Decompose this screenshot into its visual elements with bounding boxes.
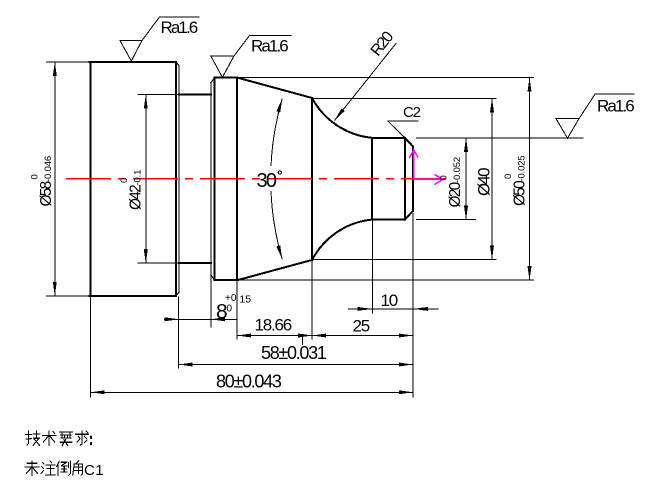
svg-text:18.66: 18.66 xyxy=(255,316,292,335)
wire R20 fillet top xyxy=(312,98,372,138)
svg-text:-0.1: -0.1 xyxy=(133,170,144,186)
colon xyxy=(90,437,92,445)
arrow 30deg top xyxy=(276,99,282,113)
arrow 10 right outside xyxy=(413,307,428,311)
svg-text:Ø42: Ø42 xyxy=(128,185,145,210)
arrow 80 right xyxy=(399,390,413,394)
arrow Ø58 top xyxy=(53,62,57,76)
svg-text:Ra1.6: Ra1.6 xyxy=(161,18,198,37)
dim Ø50 line xyxy=(529,78,531,281)
char 角 xyxy=(73,461,83,475)
arrow 10 left outside xyxy=(357,307,372,311)
wire C2 chamfer bottom xyxy=(405,211,413,220)
workpiece origin marker (magenta) xyxy=(409,150,443,185)
wire groove top edge Ø42 xyxy=(179,94,211,96)
arrow 25 right xyxy=(399,334,413,338)
wire Ø50 chamfer edge line xyxy=(214,78,216,281)
arrow Ø42 bottom xyxy=(144,249,148,263)
wire R20 fillet bottom xyxy=(312,220,372,260)
svg-text:Ø58: Ø58 xyxy=(38,181,55,206)
char 术 xyxy=(43,431,57,446)
arc lower segment xyxy=(271,191,282,259)
wire Ø20 bottom edge xyxy=(372,219,405,221)
wire Ø50 left chamfer bottom xyxy=(211,275,215,280)
dim Ø58 line xyxy=(54,62,56,296)
arrow Ø20 bottom xyxy=(464,206,468,220)
ext line 372.3 vertical xyxy=(371,220,373,314)
leader R20 xyxy=(335,43,397,120)
svg-text:0: 0 xyxy=(503,174,514,179)
dim 10 line xyxy=(348,308,439,310)
svg-text:Ra1.6: Ra1.6 xyxy=(597,97,634,116)
wire magenta horizontal axis xyxy=(414,178,444,180)
dimension arrows (filled) xyxy=(53,62,532,394)
char 注 xyxy=(41,461,55,475)
label R20 xyxy=(368,28,398,59)
magenta up arrowhead xyxy=(409,150,418,158)
svg-text:Ø20: Ø20 xyxy=(447,181,464,207)
arrow dim8 left outside xyxy=(165,317,179,321)
arrow Ø58 bottom xyxy=(53,282,57,296)
dim Ø50 extension top xyxy=(237,77,534,79)
dim Ø42 extension bottom xyxy=(138,262,179,264)
dim 58 line xyxy=(179,364,413,366)
arrow 80 left xyxy=(91,390,105,394)
arrow 18.66 left xyxy=(237,334,251,338)
svg-text:58±0.031: 58±0.031 xyxy=(261,343,327,363)
arrow 25 left xyxy=(312,334,326,338)
dimension lines (thin) xyxy=(46,62,584,398)
dim Ø42 extension top xyxy=(138,94,179,96)
dim Ø20 extension bottom xyxy=(416,219,476,221)
char 求 xyxy=(76,431,89,445)
svg-text:Ø40: Ø40 xyxy=(475,168,494,196)
wire C2 chamfer edge line xyxy=(404,138,406,220)
wire left face Ø58 xyxy=(90,62,92,296)
leader C2 xyxy=(388,121,419,138)
surface finish symbol Ra1.6 (middle) xyxy=(211,36,292,78)
svg-text:Ra1.6: Ra1.6 xyxy=(251,37,288,56)
arrow Ø50 top xyxy=(528,78,532,92)
svg-text:10: 10 xyxy=(381,291,398,310)
svg-text:15: 15 xyxy=(239,293,251,305)
wire cone top generator 30deg xyxy=(237,78,312,98)
svg-text:0: 0 xyxy=(30,174,41,179)
dim Ø58 extension bottom xyxy=(46,295,89,297)
wire Ø50 right edge line xyxy=(236,78,238,281)
char 技 xyxy=(26,431,41,446)
wire cone bottom generator 30deg xyxy=(237,260,312,280)
ext line 178.7 vertical xyxy=(178,297,180,369)
wire Ø50 left chamfer top xyxy=(211,78,215,83)
svg-text:C2: C2 xyxy=(403,104,421,121)
dim text Ø20 rotated xyxy=(439,157,465,208)
wire Ø50 top edge xyxy=(215,77,238,79)
svg-text:0: 0 xyxy=(227,304,233,315)
svg-text:C1: C1 xyxy=(84,462,104,479)
arrow Ø42 top xyxy=(144,95,148,109)
wire Ø58 chamfer edge line xyxy=(175,62,177,296)
dim 18.66 and 25 line xyxy=(237,335,413,337)
arrow Ø50 bottom xyxy=(528,266,532,280)
wire magenta vertical axis xyxy=(413,150,415,179)
wire Ø50 left face xyxy=(210,83,212,275)
surface finish symbol Ra1.6 (left) xyxy=(120,17,200,61)
dim Ø42 line xyxy=(145,95,147,264)
svg-text:-0.025: -0.025 xyxy=(517,155,528,181)
wire Ø20 top edge xyxy=(372,137,405,139)
arrow 58 right xyxy=(399,363,413,367)
arrow Ø20 top xyxy=(464,138,468,152)
dim 80 line xyxy=(91,391,413,393)
dim Ø40 extension top xyxy=(312,97,496,99)
arrow Ø40 top xyxy=(490,98,494,112)
wire Ø58 right chamfer bottom xyxy=(176,292,179,296)
wire Ø58 right face xyxy=(178,66,180,293)
dim Ø50 extension bottom xyxy=(237,279,534,281)
wire cone end edge line xyxy=(311,98,313,260)
char 倒 xyxy=(57,461,71,475)
wire Ø50 bottom edge xyxy=(215,279,238,281)
centerline (red) xyxy=(66,178,447,180)
wire Ø20 junction edge line xyxy=(371,138,373,220)
arrow dim8 right outside xyxy=(211,317,225,321)
part outline xyxy=(90,62,413,296)
ext line right face vertical xyxy=(412,213,414,398)
surface finish symbol Ra1.6 (right) xyxy=(556,94,635,138)
arc upper segment xyxy=(271,99,282,167)
svg-text:-0.046: -0.046 xyxy=(43,156,54,182)
wire groove bottom edge Ø42 xyxy=(179,262,211,264)
dim text Ø58 rotated xyxy=(30,156,56,207)
dim text Ø50 rotated xyxy=(503,155,529,206)
svg-text:Ø50: Ø50 xyxy=(512,180,529,206)
dim 8 ext right xyxy=(210,275,212,328)
dim Ø20 line xyxy=(465,138,467,220)
ext line 312.2 vertical xyxy=(311,260,313,340)
wire Ø58 right chamfer top xyxy=(176,62,179,66)
ext line 237.2 vertical xyxy=(236,280,238,339)
dim text Ø40 rotated xyxy=(475,168,494,196)
svg-text:-0.052: -0.052 xyxy=(452,157,463,183)
char 要 xyxy=(60,432,73,446)
arrow 58 left xyxy=(179,363,193,367)
svg-text:+0: +0 xyxy=(225,293,237,304)
stray tick near 58 text xyxy=(302,336,304,346)
arrow R20 leader xyxy=(335,108,345,120)
dim Ø40 extension bottom xyxy=(312,259,496,261)
technical notes (hand drawn CJK) xyxy=(26,431,92,446)
svg-text:25: 25 xyxy=(353,317,370,336)
svg-text:0: 0 xyxy=(439,175,450,180)
dim Ø20 extension top xyxy=(416,137,584,139)
magenta right arrowhead xyxy=(434,174,443,184)
svg-text:80±0.043: 80±0.043 xyxy=(216,371,282,391)
ext line 90.6 vertical xyxy=(90,297,92,398)
dim text Ø42 rotated xyxy=(119,170,145,210)
arrow Ø40 bottom xyxy=(490,246,494,260)
arrow 30deg bottom xyxy=(276,245,282,259)
dim 8 groove line xyxy=(164,318,237,320)
wire right face xyxy=(412,146,414,211)
wire C2 chamfer top xyxy=(405,138,413,147)
dim Ø58 extension top xyxy=(46,61,89,63)
dim Ø40 line xyxy=(491,98,493,259)
svg-text:0: 0 xyxy=(119,178,130,183)
wire bottom edge Ø58 xyxy=(90,295,176,297)
arrow 18.66 right xyxy=(298,334,312,338)
wire top edge Ø58 xyxy=(90,61,176,63)
svg-text:30: 30 xyxy=(257,170,277,192)
char 未 xyxy=(25,461,39,476)
angular dimension 30 degrees xyxy=(271,99,282,260)
